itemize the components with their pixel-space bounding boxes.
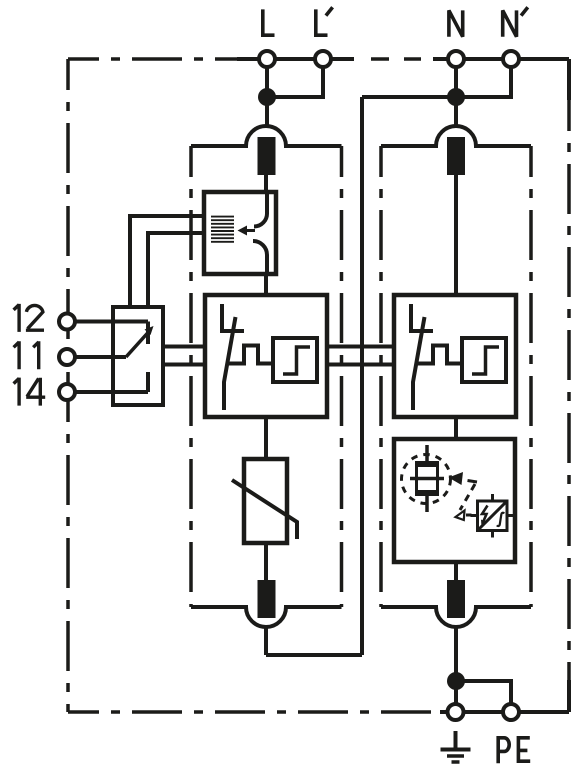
- fuse F4 bottom of N module: [447, 580, 465, 618]
- thermal disconnector upper contact hook: [254, 192, 267, 227]
- contact 14 seat: [146, 372, 150, 392]
- spark gap U2 threshold step: [472, 347, 499, 374]
- trigger link diagonal dashes: [460, 484, 475, 510]
- fuse F2 top of N module: [447, 137, 465, 175]
- node junction PE: [447, 672, 465, 690]
- wire L' drop: [267, 59, 323, 97]
- terminal PE: [503, 704, 519, 720]
- node junction L: [258, 88, 276, 106]
- remote contact wires to thermal disconnector upper: [130, 216, 204, 307]
- spark gap U2 box (N): [394, 295, 516, 417]
- switch S1 arm: [126, 332, 149, 357]
- spark gap U2 trip diagonal: [413, 317, 425, 410]
- spark gap U2 trigger waveform: [418, 346, 462, 364]
- spark gap U2 electrode: [411, 304, 433, 331]
- terminal 14 circle: [59, 384, 75, 400]
- trigger circuit A1 box: [478, 501, 508, 531]
- wire N terminal row to right corner: [433, 57, 569, 61]
- terminal N': [503, 51, 519, 67]
- label N: [449, 10, 463, 36]
- contact 12 seat: [146, 322, 150, 345]
- label PE: [498, 738, 509, 764]
- wire fuse F4 to PE junction: [454, 628, 458, 680]
- label 12: [14, 304, 20, 332]
- label 14: [14, 378, 20, 406]
- wire N' drop: [456, 59, 511, 97]
- terminal L': [315, 51, 331, 67]
- wire N drop to module arch: [454, 59, 458, 126]
- spark gap U1 threshold step: [283, 347, 310, 374]
- GDT G1 bottom lead: [425, 495, 429, 512]
- wire thermal disconnector to spark gap U1: [264, 274, 268, 295]
- wire trigger bus left pair upper: [163, 345, 205, 349]
- GDT module box (N-PE): [394, 439, 515, 562]
- enclosure border top-left dash-dot: [68, 57, 237, 61]
- wire trigger bus middle pair upper: [327, 345, 394, 349]
- wire spark gap U2 to GDT box: [454, 417, 458, 439]
- wire L terminal row: [237, 57, 354, 61]
- wire L-module bottom lead: [264, 628, 268, 655]
- wire terminal 14: [67, 390, 148, 394]
- wire right border top solid: [567, 59, 571, 100]
- trigger circuit A1 bottom tick: [491, 531, 494, 538]
- wire terminal 11: [67, 355, 126, 359]
- wire link N node to L-module output: horizontal top: [362, 95, 456, 99]
- wire right border bottom solid: [567, 680, 571, 712]
- GDT G1 tube left wall: [415, 461, 418, 496]
- spark gap U1 trigger waveform: [229, 346, 273, 364]
- label 11: [14, 341, 20, 369]
- trigger circuit A1 right tick: [507, 514, 514, 517]
- wire trigger bus left pair lower: [163, 363, 205, 367]
- GDT G1 tube bottom electrode: [415, 490, 439, 496]
- wire fuse F1 to thermal disconnector: [264, 175, 268, 192]
- module L outline top with plug arch: [191, 126, 342, 146]
- enclosure border left dash-dot: [66, 59, 70, 712]
- terminal PE ground side: [448, 704, 464, 720]
- wire fuse F2 to N spark gap box: [454, 175, 458, 295]
- GDT G1 top lead: [425, 445, 429, 462]
- terminal L: [259, 51, 275, 67]
- trigger link dash to GDT: [468, 481, 478, 483]
- enclosure border right dash-dot: [567, 100, 571, 680]
- module N outline top with plug arch: [381, 126, 531, 146]
- module N right dash-dot edge: [529, 146, 533, 607]
- terminal 11 circle: [59, 349, 75, 365]
- trigger circuit A1 diagonal: [478, 501, 508, 531]
- trigger circuit A1 top tick: [491, 494, 494, 501]
- thermal disconnector heater hatch: [211, 217, 234, 242]
- varistor RV1 body: [244, 459, 287, 543]
- label N': [503, 10, 517, 36]
- GDT G1 tube top electrode: [415, 461, 439, 467]
- enclosure border bottom dash-dot: [68, 710, 446, 714]
- wire spark gap U1 to varistor: [264, 417, 268, 459]
- label L': [316, 9, 328, 35]
- module L right dash-dot edge: [340, 146, 344, 607]
- wire PE junction to second PE terminal: [456, 681, 511, 704]
- trigger circuit A1 integral glyph: [497, 513, 504, 526]
- spark gap U1 box (L): [205, 295, 327, 417]
- trigger link hollow arrowhead: [456, 511, 465, 521]
- node junction N: [447, 88, 465, 106]
- spark gap U1 trip diagonal: [224, 317, 236, 410]
- module N left dash-dot edge: [379, 146, 383, 607]
- ground symbol: [454, 731, 458, 749]
- GDT G1 middle electrode: [410, 477, 444, 481]
- wire terminal 12: [67, 320, 148, 324]
- thermal disconnector box: [204, 192, 276, 274]
- trigger link solid arrowhead: [449, 472, 464, 485]
- module N outline bottom with plug arch: [381, 607, 531, 627]
- wire varistor to fuse F3: [264, 543, 268, 580]
- wire L drop to module arch: [265, 59, 269, 126]
- spark gap U2 threshold box: [462, 338, 506, 382]
- wire trigger bus middle pair lower: [327, 363, 394, 367]
- terminal 12 circle: [59, 314, 75, 330]
- trigger circuit A1 lightning glyph: [482, 506, 488, 524]
- varistor RV1 diagonal: [232, 480, 297, 539]
- remote signalling switch S1 box: [113, 307, 163, 405]
- fuse F3 bottom of L module: [258, 580, 276, 618]
- wire link vertical: [360, 97, 364, 655]
- fuse F1 top of L module: [258, 137, 276, 175]
- thermal disconnector lower contact hook: [253, 241, 267, 274]
- wire GDT box to fuse F4: [454, 562, 458, 580]
- enclosure border top-middle dash-dot: [371, 57, 421, 61]
- GDT G1 tube right wall: [436, 461, 439, 496]
- spark gap U1 threshold box: [273, 338, 317, 382]
- thermal disconnector trip arrow: [246, 229, 255, 232]
- wire PE junction down to PE terminal: [454, 681, 458, 704]
- GDT G1 dashed circle: [402, 455, 451, 504]
- wire bottom PE row solid: [440, 710, 569, 714]
- trigger link horizontal dash: [466, 514, 472, 517]
- wire link horizontal bottom: [266, 653, 362, 657]
- trigger circuit A1 left tick: [471, 514, 478, 517]
- remote contact wires to thermal disconnector lower: [148, 233, 204, 307]
- module L left dash-dot edge: [189, 146, 193, 607]
- spark gap U1 electrode: [222, 304, 244, 331]
- label L: [263, 9, 275, 35]
- terminal N: [448, 51, 464, 67]
- module L outline bottom with plug arch: [191, 607, 342, 627]
